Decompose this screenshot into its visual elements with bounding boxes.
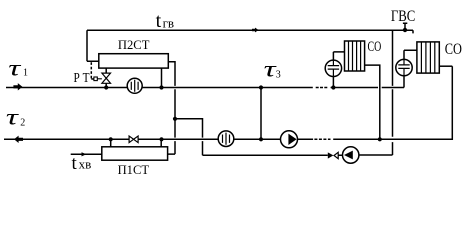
wire R1 outlet xyxy=(365,65,380,139)
wire t_hv inlet line xyxy=(71,153,102,155)
label tau2 xyxy=(6,104,20,130)
svg-text:t: t xyxy=(156,10,162,32)
node dot tau1 cross xyxy=(259,85,263,89)
wire P2ST bottom stub xyxy=(161,68,163,87)
svg-text:Р Т: Р Т xyxy=(74,70,91,85)
wire P1ST top stubs xyxy=(111,139,162,147)
heat exchanger P2ST rectangle xyxy=(99,54,169,68)
svg-text:П1СТ: П1СТ xyxy=(118,162,149,177)
label tau1 xyxy=(8,56,22,82)
wire branch from v1 to circulation line xyxy=(175,119,328,155)
radiator R2 xyxy=(417,42,439,73)
flow meter M2 xyxy=(218,131,234,147)
pump P2 xyxy=(343,147,359,163)
arrow tau1 inlet xyxy=(13,83,22,90)
wire top t_gv line xyxy=(87,30,413,61)
wire valve stubs xyxy=(105,68,107,87)
svg-text:СО: СО xyxy=(445,41,462,58)
arrow top line xyxy=(252,28,259,33)
wire cross-connect tau1 to tau2 xyxy=(260,88,262,140)
wire R2 outlet xyxy=(439,65,452,67)
svg-text:t: t xyxy=(72,153,78,174)
wire CO1 top pipe xyxy=(333,52,344,60)
valve bowtie on tau2 xyxy=(129,136,138,143)
node dot branch v1 xyxy=(173,117,177,121)
node dot tau1-CO1 xyxy=(331,85,335,89)
node GVS tap xyxy=(403,23,408,32)
pump P1 xyxy=(281,131,298,148)
node dot tau2-P1ST right xyxy=(159,137,163,141)
svg-text:СО: СО xyxy=(368,39,382,55)
wire CO2 top pipe xyxy=(404,50,417,59)
svg-text:П2СТ: П2СТ xyxy=(118,37,150,52)
svg-text:хв: хв xyxy=(79,157,92,172)
wire PT impulse dashed line xyxy=(91,62,94,79)
wire pump P2 outlet xyxy=(338,154,392,156)
svg-text:τ: τ xyxy=(6,104,20,130)
arrow tau2 outlet xyxy=(14,136,23,143)
wire tau2 main line xyxy=(4,138,313,140)
node dot tau2 cross xyxy=(259,137,263,141)
node dot tau2-P1ST left xyxy=(109,137,113,141)
svg-text:2: 2 xyxy=(20,118,25,129)
svg-text:τ: τ xyxy=(8,56,22,82)
wire CO2 bottom pipe xyxy=(403,76,405,88)
wire tau2 dashed segment xyxy=(314,138,330,140)
svg-text:3: 3 xyxy=(276,69,281,80)
svg-text:ГВС: ГВС xyxy=(391,8,415,25)
radiator R1 xyxy=(345,41,365,71)
wire tau1 main line xyxy=(6,87,313,89)
wire tau1 right segment xyxy=(331,87,404,89)
elevator circle CO2 xyxy=(396,59,412,75)
label tau3 xyxy=(264,57,278,83)
elevator circle CO1 xyxy=(325,60,341,76)
actuator square of control valve xyxy=(94,77,97,81)
wire CO1 bottom pipe xyxy=(332,77,334,88)
control valve (vertical bowtie) xyxy=(102,73,111,83)
flow meter M1 xyxy=(127,78,142,93)
node dot tau1-P2ST xyxy=(159,85,163,89)
wire CO return line xyxy=(333,66,452,139)
node dot tau1-valve xyxy=(104,85,108,89)
svg-text:1: 1 xyxy=(23,68,28,79)
svg-text:гв: гв xyxy=(163,16,174,31)
arrow t_hv xyxy=(82,152,87,156)
wire tau1 dashed segment xyxy=(316,87,328,89)
check valve xyxy=(328,152,334,158)
node dot return-R1 xyxy=(378,137,382,141)
wire circulation riser v392 xyxy=(392,30,394,155)
heat exchanger P1ST rectangle xyxy=(102,147,168,160)
wire P2ST right outlet and vertical v1 xyxy=(168,62,175,154)
